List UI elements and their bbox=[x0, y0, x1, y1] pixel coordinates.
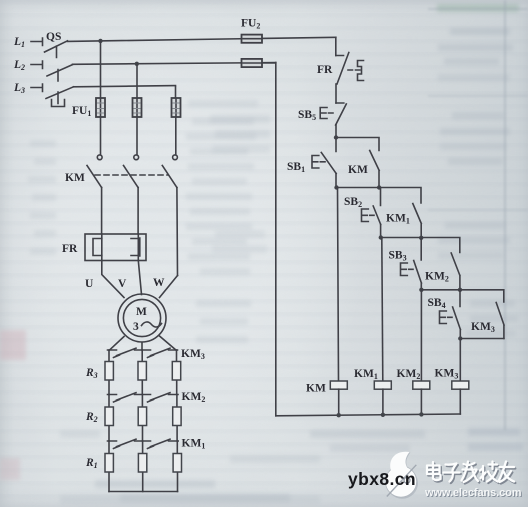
button SB5 actuator bbox=[320, 108, 333, 119]
wire rail-b R1 gap bbox=[142, 441, 144, 492]
node L1 label bbox=[13, 36, 25, 49]
svg-text:www.elecfans.com: www.elecfans.com bbox=[424, 487, 522, 499]
contactor KM3 aux contact label bbox=[471, 321, 495, 334]
node E junction bbox=[458, 336, 462, 340]
button SB3 NO contact bbox=[414, 238, 422, 283]
switch QS pole 2 blade bbox=[47, 65, 73, 81]
relay FR heater element 1 bbox=[93, 239, 102, 256]
node C junction bbox=[379, 235, 383, 239]
motor 3~ label bbox=[133, 321, 162, 333]
wire KM2 coil to bus bbox=[420, 389, 422, 414]
coil KM1 label bbox=[354, 368, 378, 381]
wire motor lead right bbox=[160, 336, 177, 351]
contactor KM label bbox=[65, 172, 85, 184]
wire node D row bbox=[421, 290, 504, 302]
resistor R2 phase1 bbox=[105, 407, 113, 426]
fuse FU1 pole3 body bbox=[172, 98, 181, 117]
wire rail2 fuse to contact bbox=[136, 64, 138, 154]
contactor KM1 aux contact label bbox=[386, 213, 410, 226]
svg-text:ybx8.cn: ybx8.cn bbox=[348, 469, 416, 489]
wire rail1 contact to FR bbox=[101, 188, 103, 235]
wire SB1 to node B bbox=[335, 174, 337, 188]
wire KM coil to bus bbox=[338, 389, 340, 415]
wire L2 lead-in with terminal tick bbox=[31, 61, 43, 69]
fuse FU2 upper body bbox=[242, 35, 263, 43]
svg-text:KM: KM bbox=[306, 383, 326, 395]
watermark url shadow bbox=[425, 488, 523, 500]
resistor R3 label bbox=[85, 367, 98, 380]
fuse FU2 label bbox=[241, 18, 260, 31]
button SB4 actuator bbox=[440, 311, 453, 324]
relay FR label bbox=[62, 243, 78, 255]
motor M outer circle bbox=[118, 294, 166, 342]
contactor KM main contact pole2 bbox=[124, 155, 139, 188]
relay FR thermal hook symbol bbox=[358, 61, 364, 81]
watermark url text bbox=[424, 487, 522, 499]
wire rail-b R2 gap bbox=[141, 395, 143, 442]
button SB5 label bbox=[298, 109, 316, 122]
wire FR through pole1 bbox=[101, 234, 103, 261]
svg-text:KM: KM bbox=[348, 164, 368, 176]
motor M label bbox=[136, 306, 147, 318]
wire L1 bus to control corner bbox=[68, 37, 336, 41]
switch QS label bbox=[46, 31, 61, 43]
node junction L2-rail2 bbox=[135, 62, 139, 66]
resistor R2 label bbox=[85, 411, 98, 424]
coil KM2 label bbox=[397, 368, 421, 381]
node bottom bus junction KM bbox=[337, 413, 341, 417]
node terminal U label bbox=[85, 278, 94, 290]
wire node E row bbox=[460, 338, 504, 340]
wire rail3 contact down past FR bbox=[176, 188, 179, 276]
wire rail-a R3 gap bbox=[108, 350, 110, 395]
contactor KM2 bypass contact row label bbox=[182, 391, 206, 404]
wire KM mechanical link dashed bbox=[95, 174, 168, 176]
resistor R1 phase1 bbox=[105, 454, 113, 473]
contactor KM1 aux NO contact bbox=[413, 204, 422, 238]
wire KM coil rail bbox=[338, 188, 339, 382]
switch QS pole 1 blade bbox=[45, 41, 68, 58]
node terminal V label bbox=[118, 278, 127, 290]
watermark ybx8.cn text bbox=[348, 469, 416, 489]
wire KM3 coil rail bbox=[459, 339, 461, 382]
watermark chinese brand shadow bbox=[428, 463, 515, 484]
contactor KM3 aux NO contact bbox=[496, 303, 504, 339]
node L2 label bbox=[13, 59, 25, 72]
node L3 label bbox=[13, 82, 25, 95]
svg-text:W: W bbox=[153, 277, 165, 289]
switch QS handle mark bbox=[52, 100, 65, 107]
contactor KM main contact pole1 bbox=[87, 155, 102, 188]
resistor R1 phase2 bbox=[138, 454, 146, 473]
wire KM1 coil rail bbox=[382, 238, 383, 382]
coil KM label bbox=[306, 383, 326, 395]
svg-text:KM: KM bbox=[65, 172, 85, 184]
logo elecfans flame shadow bbox=[386, 452, 418, 499]
relay FR heater box bbox=[85, 234, 146, 261]
coil KM body bbox=[330, 381, 347, 389]
wire W phase to motor bbox=[160, 276, 178, 298]
relay FR NC contact label bbox=[317, 64, 333, 76]
button SB1 actuator bbox=[312, 156, 325, 169]
resistor R2 phase3 bbox=[173, 407, 181, 426]
wire rail3 fuse to contact bbox=[175, 87, 177, 155]
wire U phase to motor bbox=[102, 261, 124, 298]
wire rail-a R2 gap bbox=[108, 395, 110, 442]
fuse FU1 pole2 body bbox=[133, 98, 142, 117]
button SB2 NO contact bbox=[373, 188, 381, 225]
button SB2 label bbox=[344, 196, 362, 209]
wire KM1 coil to bus bbox=[382, 389, 384, 415]
wire SB3 to node D bbox=[420, 283, 422, 290]
node bottom bus junction KM1 bbox=[381, 413, 385, 417]
wire control right feeder bbox=[335, 37, 337, 55]
wire rail-c R2 gap bbox=[176, 395, 178, 442]
wire L1 lead-in with terminal tick bbox=[31, 38, 43, 46]
wire rail-a R1 gap bbox=[108, 441, 110, 492]
resistor R1 label bbox=[85, 457, 98, 470]
coil KM1 body bbox=[374, 381, 391, 389]
fuse FU2 lower body bbox=[242, 59, 263, 67]
fuse FU1 label bbox=[72, 105, 91, 118]
wire node C row bbox=[381, 238, 460, 253]
wire star point bus bbox=[109, 491, 178, 493]
fuse FU1 pole1 body bbox=[96, 98, 105, 117]
contactor KM2 aux NO contact bbox=[451, 253, 460, 290]
wire node B row bbox=[336, 188, 421, 204]
node B junction right bbox=[377, 185, 381, 189]
wire motor lead centre bbox=[141, 343, 143, 351]
button SB2 actuator bbox=[362, 209, 375, 222]
contactor KM main contact pole3 bbox=[162, 155, 177, 188]
node bottom bus junction KM2 bbox=[419, 412, 423, 416]
wire FR through pole2 bbox=[137, 234, 139, 261]
contactor KM aux contact label bbox=[348, 164, 368, 176]
button SB3 actuator bbox=[401, 263, 414, 276]
button SB4 label bbox=[428, 297, 446, 310]
svg-text:3: 3 bbox=[133, 321, 139, 333]
coil KM3 body bbox=[452, 381, 469, 389]
resistor R1 phase3 bbox=[173, 454, 181, 473]
relay FR NC contact bbox=[336, 53, 349, 85]
contactor KM2 bypass contact row bbox=[108, 393, 179, 402]
relay FR contact dashes bbox=[348, 69, 360, 71]
wire L3 lead-in with terminal tick bbox=[31, 84, 43, 92]
button SB1 NO contact bbox=[321, 138, 336, 174]
node A junction bbox=[334, 135, 338, 139]
motor M inner circle bbox=[123, 299, 160, 336]
watermark chinese brand strokes bbox=[427, 462, 514, 483]
button SB5 NC contact bbox=[336, 103, 347, 125]
wire node A branch to KM aux bbox=[336, 138, 379, 151]
node D junction right bbox=[458, 288, 462, 292]
coil KM2 body bbox=[413, 381, 430, 389]
wire SB4 to node E bbox=[459, 330, 461, 339]
wire rail-c R3 gap bbox=[176, 350, 178, 395]
node B junction bbox=[334, 185, 338, 189]
wire control left rail from FU2 bbox=[262, 63, 276, 416]
wire KM2 coil rail bbox=[420, 290, 422, 381]
wire rail2 contact to FR bbox=[137, 188, 139, 235]
contactor KM3 bypass contact row label bbox=[181, 348, 205, 361]
wire rail1 upper bbox=[100, 41, 102, 98]
button SB4 NO contact bbox=[453, 290, 461, 330]
wire V phase to motor bbox=[138, 261, 141, 295]
svg-text:QS: QS bbox=[46, 31, 61, 43]
node junction L1-rail1 bbox=[98, 39, 102, 43]
contactor KM2 aux contact label bbox=[425, 271, 449, 284]
contactor KM aux NO contact bbox=[370, 151, 380, 188]
coil KM3 label bbox=[435, 368, 459, 381]
node D junction bbox=[419, 288, 423, 292]
wire KM3 coil to bus bbox=[459, 389, 461, 414]
contactor KM1 bypass contact row label bbox=[182, 438, 206, 451]
relay FR heater element 2 bbox=[131, 238, 140, 256]
node terminal W label bbox=[153, 277, 165, 289]
svg-text:M: M bbox=[136, 306, 147, 318]
button SB1 label bbox=[287, 161, 305, 174]
resistor R3 phase1 bbox=[105, 362, 113, 381]
wire FR to SB5 bbox=[335, 84, 337, 103]
svg-text:FR: FR bbox=[317, 64, 333, 76]
svg-text:V: V bbox=[118, 278, 127, 290]
resistor R3 phase3 bbox=[172, 362, 180, 381]
contactor KM3 bypass contact row bbox=[108, 348, 178, 357]
logo elecfans flame bbox=[385, 452, 416, 497]
wire rail-c R1 gap bbox=[176, 441, 178, 492]
wire L2 bus to control fuse bbox=[73, 63, 276, 65]
svg-text:FR: FR bbox=[62, 243, 78, 255]
resistor R2 phase2 bbox=[138, 407, 146, 426]
wire SB2 to node C bbox=[380, 225, 382, 238]
wire L3 bus to rail3 bbox=[74, 86, 176, 87]
svg-text:U: U bbox=[85, 278, 94, 290]
button SB3 label bbox=[389, 250, 407, 263]
resistor R3 phase2 bbox=[138, 362, 146, 381]
wire rail1 fuse to contact bbox=[100, 117, 102, 154]
wire SB5 to node A bbox=[335, 125, 337, 138]
switch QS pole 3 blade bbox=[46, 87, 74, 104]
wire motor lead left bbox=[109, 337, 124, 351]
node C junction right bbox=[419, 236, 423, 240]
wire control bottom bus bbox=[276, 414, 461, 416]
contactor KM1 bypass contact row bbox=[108, 439, 179, 448]
wire rail-b R3 gap bbox=[141, 350, 143, 395]
